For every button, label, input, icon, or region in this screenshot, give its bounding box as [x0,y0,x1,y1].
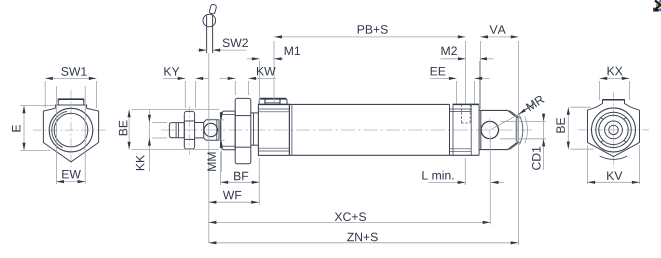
right view chamfer ticks [601,117,626,142]
main view axis centerline [161,129,532,131]
dimension KK (rod thread) [136,110,167,172]
clevis radius arc MR [520,116,523,145]
left view chamfer arc [52,111,67,147]
right view circle 3 [599,115,628,144]
dimension EE [430,67,490,103]
rod flats detail view SW2 [203,4,217,53]
dimension BE (main view) [119,110,219,150]
rod end barrel (dia MM) [204,120,219,141]
rod nut centerline [188,106,190,155]
piston rod segment [195,123,204,138]
cylinder tube [289,104,449,155]
spherical rod end ball [204,123,217,136]
clevis hole CD1 [481,118,498,142]
dimension M1 [247,47,300,61]
left view tube inner circle [54,113,88,147]
rear port hidden thread M2 [461,104,470,123]
clevis outer swing arc [525,117,528,144]
left view hexagonal cap outline [43,108,98,162]
dimension KW [220,67,277,95]
extension line clevis hole centre [489,136,491,225]
dimension E [12,106,54,151]
front mounting hex nut BF [235,98,251,163]
left end view centerlines [33,90,109,171]
dimension M2 [441,46,494,60]
dimension EW [56,86,85,184]
front port boss M1 [259,98,287,104]
dimension VA [480,25,518,38]
right view cushion screw circle [605,121,623,139]
dimension KX [600,67,630,100]
rear clevis eye body [479,110,519,149]
extension line body right end [517,41,519,245]
dimension WF [209,191,259,204]
extension line head front face [259,61,261,104]
right view circumscribed arc [600,156,628,159]
right view hexagonal cap outline [588,107,640,156]
dimension XC+S [209,212,491,224]
dimension L min. [422,158,503,185]
dimension SW2 [197,38,248,51]
left view top boss (wrench flats) [55,99,86,108]
dimension KY [163,67,209,108]
extension line port 1 centre [273,41,275,104]
dimension SW1 [45,67,96,108]
dimension MR leader [491,95,545,130]
dimension ZN+S [209,233,519,245]
extension line port 2 centre [465,41,467,104]
dimension BE (right view) [556,107,593,149]
rod hex nut KY [184,111,194,149]
right view circle 2 [596,112,631,147]
dimension PB+S [274,25,465,38]
reference line rod end face [208,53,210,243]
extension line clevis left face [479,41,481,109]
left view tube outer circle [49,108,93,152]
rear head block [450,104,480,155]
dimension KV [588,145,640,184]
dimension MM (rod diameter) [208,112,225,172]
right view outer circle [592,108,636,152]
right end view centerlines [578,92,649,168]
right view hex socket circle [609,125,618,134]
corner cursor icon [653,0,661,12]
dimension BF [221,152,260,205]
right view top boss [596,100,631,108]
front head block [258,104,289,155]
extension line rear clevis face [478,61,480,104]
dimension CD1 [500,113,546,170]
front threaded boss [221,111,236,150]
washer between nut and head [251,113,259,145]
piston rod threaded tip [169,123,184,138]
